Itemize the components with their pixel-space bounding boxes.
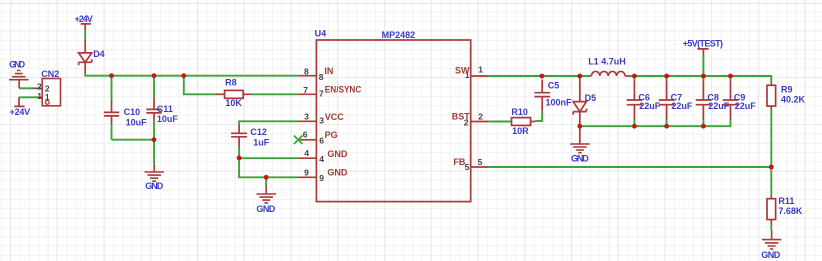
wire +5V port down to rail [702, 55, 704, 76]
svg-text:4: 4 [304, 148, 309, 158]
junction C11 bottom [152, 137, 157, 142]
svg-text:D4: D4 [93, 49, 105, 59]
wire output gnd rail [580, 125, 731, 127]
svg-text:C5: C5 [548, 81, 560, 91]
junction C11 top [152, 73, 157, 78]
svg-text:10uF: 10uF [126, 118, 148, 128]
wire +24V to CN2 pin1 [19, 96, 38, 98]
wire main input rail [85, 74, 298, 76]
capacitor C10 [104, 76, 119, 140]
capacitor C11 [146, 76, 161, 140]
svg-text:7: 7 [303, 85, 308, 95]
pin 2 BST [471, 121, 489, 123]
wire R9 bottom to FB node [770, 109, 772, 167]
ground symbol bottom right [762, 230, 782, 249]
svg-text:+5V(TEST): +5V(TEST) [683, 39, 723, 49]
svg-text:C10: C10 [124, 107, 141, 117]
diode D5 (schottky, cathode down) [573, 76, 586, 126]
svg-text:CN2: CN2 [41, 69, 59, 79]
ground symbol below C12 [257, 186, 277, 203]
svg-text:3: 3 [319, 116, 324, 126]
svg-text:40.2K: 40.2K [781, 95, 806, 105]
ground symbol below C11 [145, 164, 165, 181]
svg-text:EN/SYNC: EN/SYNC [325, 85, 362, 95]
junction C8 bottom [701, 124, 706, 129]
inductor L1 [589, 71, 629, 76]
svg-text:IN: IN [324, 66, 333, 76]
junction C7 bottom [664, 124, 669, 129]
diode D4 (schottky, cathode down) [79, 40, 92, 74]
wire R8 to pin7 [251, 93, 298, 95]
svg-text:U4: U4 [315, 28, 327, 38]
junction FB node [769, 165, 774, 170]
pin 6 PG with no-connect X [298, 139, 316, 141]
svg-text:2: 2 [478, 111, 483, 121]
wire C11 bottom to ground [153, 140, 155, 165]
ground symbol below D5 [570, 144, 590, 153]
svg-text:+24V: +24V [75, 14, 93, 24]
junction R8 branch [181, 73, 186, 78]
capacitor C9 [723, 76, 738, 126]
svg-text:1uF: 1uF [253, 138, 270, 148]
svg-text:MP2482: MP2482 [382, 30, 416, 40]
svg-text:22uF: 22uF [708, 101, 730, 111]
power port +5V(TEST) [697, 49, 708, 55]
capacitor C5 [535, 80, 551, 121]
wire VCC pin3 to C12 [239, 121, 298, 124]
svg-text:C11: C11 [157, 104, 173, 114]
capacitor C8 [696, 76, 711, 126]
resistor R10 [512, 118, 536, 126]
svg-text:2: 2 [37, 82, 42, 92]
junction C12 bottom node [237, 156, 242, 161]
junction C7 top [664, 74, 669, 79]
svg-text:SW: SW [455, 66, 470, 76]
pin 7 EN/SYNC [298, 93, 317, 95]
power port +24V top [81, 24, 91, 30]
wire rail branch down to R8 [184, 76, 216, 95]
pin 8 IN [298, 75, 317, 77]
svg-text:6: 6 [303, 129, 308, 139]
svg-text:GND: GND [9, 60, 26, 70]
svg-text:1: 1 [37, 91, 42, 101]
junction D5 bottom [577, 124, 582, 129]
wire pin4 GND to C12 bottom [239, 157, 298, 159]
wire C12 node down to pin9 wire [239, 158, 298, 177]
svg-text:D5: D5 [585, 93, 597, 103]
svg-text:7: 7 [319, 88, 324, 98]
wire C10 bottom to C11 bottom [112, 139, 155, 141]
svg-text:GND: GND [327, 149, 348, 159]
junction D5 top [577, 74, 582, 79]
junction C6 top [632, 74, 637, 79]
wire output rail [629, 76, 771, 83]
svg-text:1: 1 [478, 65, 483, 75]
svg-text:R11: R11 [778, 196, 794, 206]
connector CN2 [34, 79, 61, 106]
svg-text:3: 3 [304, 111, 309, 121]
wire R11 bottom to ground [770, 225, 772, 230]
svg-text:100nF: 100nF [546, 98, 573, 108]
svg-text:GND: GND [256, 204, 275, 214]
wire GND to CN2 pin2 [19, 87, 34, 89]
svg-text:GND: GND [761, 250, 781, 260]
svg-text:22uF: 22uF [671, 101, 693, 111]
wire GND tap down [265, 177, 267, 185]
svg-text:FB: FB [453, 157, 465, 167]
svg-text:+24V: +24V [10, 107, 31, 117]
junction C5 top [540, 74, 545, 79]
wire BST to R10 [488, 121, 511, 123]
svg-text:8: 8 [304, 66, 309, 76]
pin 1 SW [471, 75, 489, 77]
svg-text:L1 4.7uH: L1 4.7uH [588, 57, 626, 67]
junction GND tap on pin9 wire [264, 175, 269, 180]
capacitor C12 [231, 124, 247, 158]
svg-text:R8: R8 [225, 78, 237, 88]
junction C8/+5V top [701, 74, 706, 79]
svg-text:VCC: VCC [325, 112, 345, 122]
svg-text:R9: R9 [781, 85, 793, 95]
svg-text:1: 1 [45, 92, 50, 102]
resistor R9 [767, 83, 776, 110]
pin 4 GND [298, 157, 317, 159]
svg-text:22uF: 22uF [735, 101, 757, 111]
svg-text:6: 6 [319, 135, 324, 145]
svg-text:10uF: 10uF [157, 114, 179, 124]
ground symbol top-left (flipped up) [9, 71, 29, 89]
wire FB [488, 166, 771, 168]
svg-text:10R: 10R [512, 126, 529, 136]
svg-text:PG: PG [325, 130, 338, 140]
svg-text:BST: BST [452, 111, 471, 121]
junction C10 top [109, 73, 114, 78]
svg-text:GND: GND [145, 181, 164, 191]
pin 5 FB [471, 166, 489, 168]
capacitor C7 [659, 76, 674, 126]
svg-text:9: 9 [319, 173, 324, 183]
svg-text:5: 5 [478, 157, 483, 167]
svg-text:GND: GND [571, 154, 589, 164]
svg-text:R10: R10 [511, 107, 528, 117]
wire +24V port to D4 [84, 30, 86, 39]
pin 3 VCC [298, 120, 317, 122]
resistor R8 [215, 90, 251, 98]
junction C9 top [728, 74, 733, 79]
svg-text:4: 4 [319, 154, 324, 164]
svg-text:9: 9 [304, 167, 309, 177]
power port +24V bottom-left [14, 97, 24, 106]
wire SW rail [488, 75, 589, 77]
svg-text:GND: GND [327, 167, 348, 177]
wire D5 bottom to ground [579, 126, 581, 144]
junction C6 bottom [632, 124, 637, 129]
svg-text:7.68K: 7.68K [778, 206, 803, 216]
resistor R11 [767, 196, 776, 225]
IC U4 body [316, 40, 470, 202]
svg-text:8: 8 [319, 72, 324, 82]
capacitor C6 [627, 76, 642, 126]
wire FB node to R11 [770, 167, 772, 196]
svg-text:C12: C12 [250, 127, 267, 137]
svg-text:22uF: 22uF [639, 101, 661, 111]
svg-text:10K: 10K [225, 98, 242, 108]
pin 9 GND [298, 176, 317, 178]
